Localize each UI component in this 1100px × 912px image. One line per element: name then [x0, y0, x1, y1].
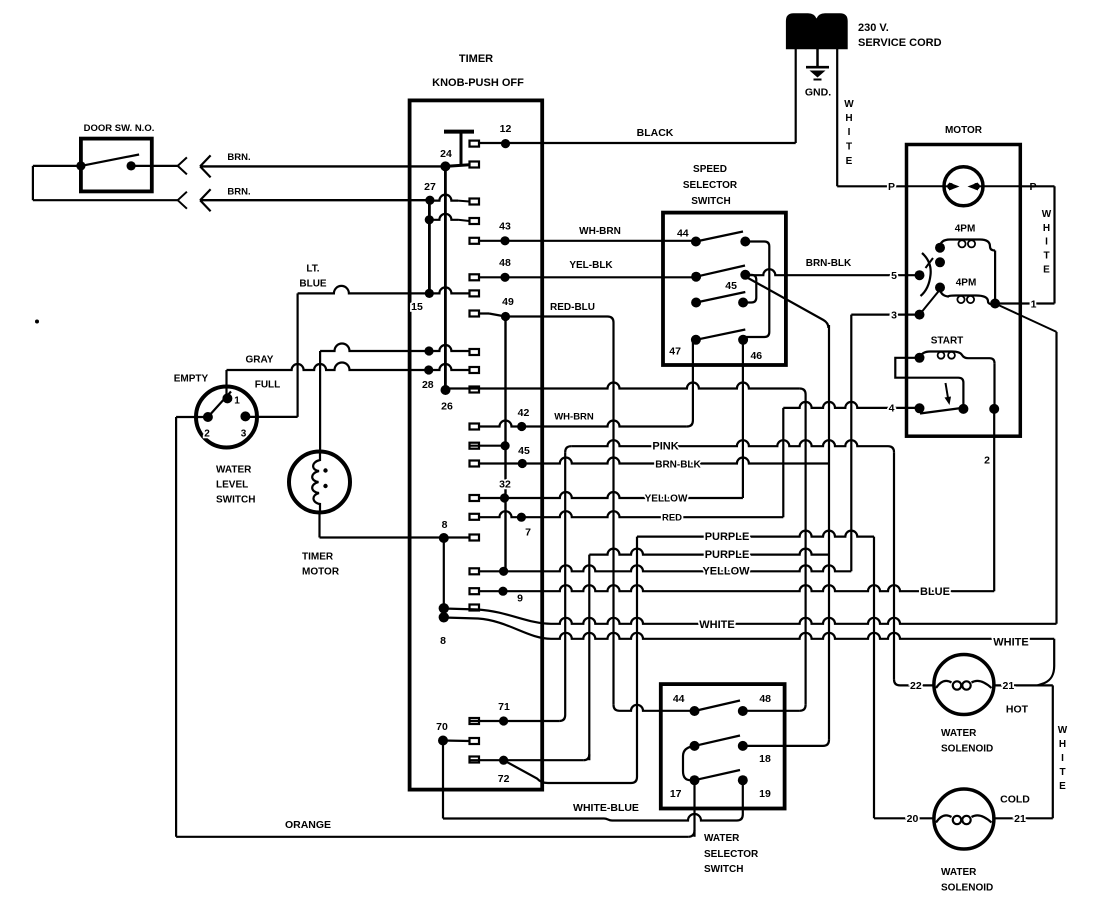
stub row 15 — [470, 290, 480, 296]
wire red riser — [782, 408, 784, 517]
svg-text:SOLENOID: SOLENOID — [941, 744, 993, 755]
svg-text:WHITE: WHITE — [699, 619, 734, 631]
door switch box — [81, 139, 152, 192]
svg-text:TIMER: TIMER — [302, 552, 334, 563]
wire pink drop to 22 — [893, 452, 895, 679]
stub row 571 — [470, 568, 480, 574]
motor 5 selector arc — [921, 253, 931, 296]
wire PURPLE2 (timer 72 to water sel 18 riser) — [589, 549, 829, 555]
svg-text:I: I — [848, 127, 851, 138]
svg-text:H: H — [1059, 739, 1066, 750]
svg-text:EMPTY: EMPTY — [174, 374, 209, 385]
terminal 26 dot — [441, 385, 451, 395]
motor 4PM wire down to 1 — [994, 251, 996, 304]
cold solenoid circle — [934, 789, 994, 849]
wire 71 row — [470, 720, 560, 722]
svg-text:4PM: 4PM — [955, 224, 976, 235]
speed pole2 dot — [691, 272, 701, 282]
svg-text:LT.: LT. — [306, 264, 319, 275]
svg-text:TIMER: TIMER — [459, 53, 493, 65]
svg-text:44: 44 — [677, 228, 689, 240]
speed 45 strap to pole3 — [743, 275, 756, 303]
svg-text:SELECTOR: SELECTOR — [704, 849, 759, 860]
svg-text:W: W — [1058, 725, 1068, 736]
svg-text:W: W — [1042, 209, 1052, 220]
speed 46 contact dot — [738, 335, 748, 345]
motor 4PM upper winding — [935, 243, 945, 253]
wire WHITE row E (to hot solenoid 21) — [444, 618, 551, 639]
stub row 27 — [470, 199, 480, 205]
water sel 18 dot — [738, 741, 748, 751]
wire 18 to riser — [743, 745, 823, 747]
stub row 8 — [470, 535, 480, 541]
stub row 72 — [470, 757, 480, 763]
wire 22 row — [900, 684, 934, 686]
motor START winding — [915, 353, 925, 363]
wire BRN-BLK (speed 45 to motor 5) — [745, 269, 919, 275]
svg-text:SWITCH: SWITCH — [216, 495, 255, 506]
svg-text:2: 2 — [204, 429, 210, 440]
connector chevrons BRN lower — [178, 192, 187, 201]
motor box — [907, 145, 1021, 437]
svg-text:4: 4 — [889, 403, 895, 415]
terminal 49 dot — [501, 312, 510, 321]
speed pole2 blade — [696, 266, 745, 277]
svg-text:45: 45 — [725, 280, 737, 292]
stub row 48 — [470, 274, 480, 280]
wire 72 diagonal — [504, 760, 637, 783]
wire 21 cold row — [994, 817, 1053, 819]
svg-text:WH-BRN: WH-BRN — [554, 412, 594, 423]
svg-text:WATER: WATER — [941, 867, 977, 878]
svg-text:12: 12 — [500, 123, 512, 135]
door switch blade — [81, 155, 139, 166]
wire vertical to water sel 48 — [804, 395, 806, 705]
wire BRN-BLK (timer 45 right) — [470, 458, 830, 464]
svg-text:BRN.: BRN. — [227, 187, 250, 198]
svg-text:W: W — [844, 99, 854, 110]
wire RED-BLU vertical to water sel 44 — [612, 323, 614, 705]
svg-text:START: START — [931, 336, 964, 347]
wire FULL (timer to timer motor) — [320, 344, 469, 351]
wire speed 46 drop — [742, 340, 744, 498]
stub row 26 — [470, 387, 480, 393]
wlsw contact 1 — [222, 393, 232, 403]
svg-text:DOOR SW. N.O.: DOOR SW. N.O. — [84, 123, 155, 134]
vertical 24-26 — [444, 166, 447, 390]
hot solenoid coil — [936, 681, 952, 688]
svg-text:48: 48 — [499, 257, 511, 269]
wlsw blade — [208, 392, 231, 418]
dot below 27 — [425, 215, 434, 224]
timer motor coil — [312, 452, 320, 512]
svg-text:3: 3 — [241, 429, 247, 440]
gray vertical to wlsw 1 — [225, 370, 227, 398]
wire 44 row into box — [620, 705, 695, 711]
motor diagonal to white row D — [995, 304, 1056, 332]
wire 20 row — [874, 817, 934, 819]
svg-text:32: 32 — [499, 479, 511, 491]
wire 18 riser — [828, 325, 830, 740]
stub row 7 — [470, 514, 480, 520]
motor contact dots — [935, 257, 945, 267]
svg-text:28: 28 — [422, 379, 434, 391]
wire speed 47 drop — [692, 340, 694, 421]
svg-text:E: E — [846, 156, 853, 167]
wire BRN upper (door sw to timer 24) — [131, 165, 178, 167]
svg-text:15: 15 — [411, 301, 423, 313]
svg-text:7: 7 — [525, 527, 531, 539]
svg-text:SWITCH: SWITCH — [704, 864, 743, 875]
speed pole3 blade — [696, 292, 745, 303]
motor start winding drop — [993, 363, 995, 409]
white E drop to 21 — [1038, 639, 1055, 686]
water sel 48 dot — [738, 706, 748, 716]
wire BRN lower (to timer 27) — [200, 199, 430, 201]
svg-text:42: 42 — [518, 407, 530, 419]
terminal 32 dot — [500, 493, 509, 502]
svg-text:BRN-BLK: BRN-BLK — [655, 460, 701, 471]
wire 72 row — [470, 759, 584, 761]
yellow3 riser — [850, 315, 852, 572]
water selector switch box — [661, 684, 785, 808]
water sel C connector — [683, 746, 695, 780]
stub row 43 — [470, 238, 480, 244]
purple2 left vertical — [588, 555, 590, 761]
terminal 48 dot — [500, 273, 509, 282]
wire wlsw 2 left — [176, 416, 208, 418]
wire white plug to motor P — [837, 185, 906, 187]
svg-text:WHITE-BLUE: WHITE-BLUE — [573, 802, 639, 814]
wlsw contact 3 — [240, 411, 250, 421]
speed 45 diagonal — [745, 277, 828, 329]
svg-text:22: 22 — [910, 680, 922, 692]
dot row 351 — [424, 346, 433, 355]
stub row 9 — [470, 588, 480, 594]
wire P to 1 white run — [1020, 185, 1054, 187]
water sel 17 dot — [690, 775, 700, 785]
stub row 445 — [470, 443, 480, 449]
water sel A dot — [690, 741, 700, 751]
wire 24 to stub — [445, 165, 469, 167]
wire 220 to stub — [429, 214, 458, 220]
svg-text:72: 72 — [498, 773, 510, 785]
speed 44 blade — [696, 232, 743, 242]
svg-text:26: 26 — [441, 401, 453, 413]
svg-text:27: 27 — [424, 181, 436, 193]
speed 44 dot — [691, 237, 701, 247]
wire 70 to stub — [443, 739, 470, 742]
vertical 8 to white dots — [443, 538, 445, 617]
wire RED (timer 7 to motor 4) — [470, 511, 784, 517]
wire 48 to riser — [743, 710, 800, 712]
svg-text:44: 44 — [673, 693, 685, 705]
wire BLACK (timer 12 to service cord) — [475, 142, 796, 144]
motor start arrow — [946, 383, 949, 398]
water sel 44 blade — [695, 701, 741, 712]
motor 3 link — [920, 290, 941, 315]
svg-text:I: I — [1045, 236, 1048, 247]
terminal 43 dot — [500, 236, 509, 245]
svg-text:3: 3 — [891, 310, 897, 322]
wire WHITE-BLUE (70 to water sel 19) — [443, 814, 743, 821]
svg-text:2: 2 — [984, 455, 990, 467]
dot row 571 — [499, 567, 508, 576]
svg-text:WATER: WATER — [941, 728, 977, 739]
purple1 left vertical — [636, 537, 638, 777]
svg-text:WATER: WATER — [216, 465, 252, 476]
speed pole1 contact dot — [740, 237, 750, 247]
stub row D — [470, 605, 480, 611]
svg-text:PINK: PINK — [652, 441, 678, 453]
terminal 72 dot — [499, 756, 508, 765]
svg-text:RED-BLU: RED-BLU — [550, 302, 595, 313]
svg-text:YELLOW: YELLOW — [702, 566, 750, 578]
svg-text:BLUE: BLUE — [299, 279, 327, 290]
svg-text:46: 46 — [750, 350, 762, 362]
stub row 42 — [470, 424, 480, 430]
full vertical to timer motor — [319, 351, 321, 452]
svg-text:18: 18 — [759, 753, 771, 765]
speed 45 contact dot — [740, 270, 750, 280]
svg-text:GRAY: GRAY — [246, 355, 274, 366]
door switch left loop wire — [33, 165, 81, 167]
wire ORANGE bottom — [176, 836, 688, 838]
terminal 12 stub — [470, 141, 480, 147]
white dots pair — [439, 603, 449, 613]
svg-text:43: 43 — [499, 221, 511, 233]
motor 3 dot — [915, 310, 925, 320]
svg-text:HOT: HOT — [1006, 704, 1029, 716]
wire wlsw3 stub — [245, 416, 297, 418]
svg-text:4PM: 4PM — [956, 278, 977, 289]
wire 27 to stub — [430, 195, 458, 201]
stub row 28 — [470, 367, 480, 373]
stub row 70 — [470, 738, 480, 744]
terminal 15 dot — [425, 289, 434, 298]
stub row 45t — [470, 461, 480, 467]
svg-text:ORANGE: ORANGE — [285, 819, 331, 831]
wire YEL-BLK (timer 48 to speed switch) — [470, 276, 697, 278]
svg-text:SERVICE CORD: SERVICE CORD — [858, 37, 942, 49]
svg-text:PURPLE: PURPLE — [705, 531, 750, 543]
svg-text:MOTOR: MOTOR — [945, 125, 983, 136]
wire 70 drop — [442, 741, 444, 819]
svg-text:MOTOR: MOTOR — [302, 567, 340, 578]
terminal 24 dot — [440, 161, 450, 171]
stub row 220 — [470, 218, 480, 224]
svg-text:SWITCH: SWITCH — [691, 196, 730, 207]
stray dot — [35, 320, 39, 324]
svg-text:49: 49 — [502, 296, 514, 308]
svg-text:SPEED: SPEED — [693, 164, 727, 175]
speed pole1 strap to 46 — [743, 242, 769, 340]
terminal 45 dot — [518, 459, 527, 468]
svg-text:RED: RED — [662, 513, 682, 524]
svg-text:SOLENOID: SOLENOID — [941, 883, 993, 894]
wire RED-BLU (timer 49 right) — [470, 312, 490, 314]
motor protector circle — [944, 167, 983, 206]
svg-text:21: 21 — [1003, 680, 1015, 692]
svg-text:T: T — [1059, 767, 1065, 778]
wire 17 drop to orange — [693, 780, 695, 837]
terminal 9 dot — [498, 587, 507, 596]
svg-text:H: H — [1043, 223, 1050, 234]
stub row 71 — [470, 718, 480, 724]
svg-text:24: 24 — [440, 148, 452, 160]
wire timer 26 to water sel 48 — [446, 383, 800, 389]
wire BLUE (timer 9 to motor 2) — [470, 585, 995, 591]
motor start tab — [895, 358, 963, 409]
svg-text:T: T — [1043, 250, 1049, 261]
motor start contact dots — [958, 404, 968, 414]
svg-text:9: 9 — [517, 593, 523, 605]
svg-text:1: 1 — [234, 396, 240, 407]
water sel 44 dot — [690, 706, 700, 716]
motor 5 dot — [915, 270, 925, 280]
svg-text:COLD: COLD — [1000, 794, 1030, 806]
terminal 71 dot — [499, 716, 508, 725]
wire WH-BRN (timer 42 to speed 47) — [470, 421, 687, 427]
ground pin wire — [816, 49, 819, 66]
svg-text:8: 8 — [440, 635, 446, 647]
svg-text:21: 21 — [1014, 813, 1026, 825]
svg-text:P: P — [888, 181, 895, 193]
svg-text:19: 19 — [759, 788, 771, 800]
speed selector switch box — [663, 213, 786, 365]
svg-text:I: I — [1061, 753, 1064, 764]
terminal 8 dot — [439, 533, 449, 543]
cold solenoid coil — [936, 815, 952, 822]
svg-text:BLUE: BLUE — [920, 586, 950, 598]
svg-text:WATER: WATER — [704, 833, 740, 844]
wire ORANGE vertical — [175, 417, 177, 837]
svg-text:PURPLE: PURPLE — [705, 549, 750, 561]
stub row 49 — [470, 311, 480, 317]
svg-text:8: 8 — [442, 519, 448, 531]
water sel 17 blade — [695, 770, 741, 780]
wire YELLOW (timer 32 to speed 46) — [470, 492, 743, 498]
hot solenoid circle — [934, 655, 994, 715]
speed 47 blade — [696, 330, 745, 340]
wire motor 3 row — [851, 314, 919, 316]
svg-text:45: 45 — [518, 445, 530, 457]
terminal 70 dot — [438, 736, 448, 746]
stub row 351 — [470, 349, 480, 355]
wire PURPLE1 (timer 72 diag to cold solenoid) — [637, 531, 874, 537]
svg-text:71: 71 — [498, 701, 510, 713]
svg-text:E: E — [1043, 264, 1050, 275]
stub row 32 — [470, 495, 480, 501]
svg-text:70: 70 — [436, 721, 448, 733]
wire YELLOW3 (timer to motor 3) — [470, 565, 852, 571]
terminal 12 dot — [501, 139, 510, 148]
wire motor 2 vertical — [993, 409, 995, 591]
230V service cord plug — [786, 13, 848, 49]
terminal 28 dot — [424, 365, 433, 374]
connector chevrons BRN upper — [178, 157, 187, 166]
svg-text:KNOB-PUSH OFF: KNOB-PUSH OFF — [432, 77, 524, 89]
motor 4PM lower winding — [940, 288, 995, 305]
purple1 right vertical to 20 — [873, 537, 875, 819]
terminal 27 dot — [425, 196, 434, 205]
water sel A blade — [695, 736, 741, 746]
svg-text:BRN.: BRN. — [227, 152, 250, 163]
svg-text:WH-BRN: WH-BRN — [579, 226, 621, 237]
svg-text:T: T — [846, 141, 852, 152]
door switch contacts — [76, 161, 85, 170]
svg-text:47: 47 — [669, 346, 681, 358]
svg-text:H: H — [845, 113, 852, 124]
svg-text:GND.: GND. — [805, 87, 831, 99]
svg-text:E: E — [1059, 781, 1066, 792]
motor 4 dot — [915, 403, 925, 413]
motor start blade — [920, 408, 962, 414]
black pin wire — [795, 49, 797, 143]
svg-text:17: 17 — [670, 788, 682, 800]
white pin wire — [836, 49, 838, 186]
dot row 445 — [501, 441, 510, 450]
wire stub to 445 dot — [470, 445, 506, 447]
timer box — [410, 100, 543, 789]
terminal 42 dot — [517, 422, 526, 431]
wire LT BLUE (wlsw 3 to timer 15) — [298, 286, 470, 293]
stub row 24 — [470, 162, 480, 168]
motor protector contacts — [949, 183, 960, 191]
wire WH-BRN (timer 43 to speed 44) — [470, 240, 696, 242]
timer motor circle — [289, 452, 350, 513]
wire P row inside — [907, 185, 945, 187]
svg-text:SELECTOR: SELECTOR — [683, 180, 738, 191]
svg-text:5: 5 — [891, 270, 897, 282]
wire 21 hot to cold — [1052, 685, 1054, 818]
svg-text:1: 1 — [1031, 299, 1037, 311]
vertical 49-571 — [504, 317, 506, 572]
lt blue vertical — [297, 293, 299, 417]
speed 47 dot — [691, 335, 701, 345]
svg-text:LEVEL: LEVEL — [216, 480, 248, 491]
wlsw contact 2 — [203, 412, 213, 422]
svg-text:20: 20 — [907, 813, 919, 825]
ground symbol — [806, 66, 829, 69]
terminal 7 dot — [517, 513, 526, 522]
svg-text:BLACK: BLACK — [637, 127, 674, 139]
speed pole3 dot — [691, 298, 701, 308]
knob push bar — [444, 130, 474, 134]
motor 1 junction dot — [990, 299, 1000, 309]
wire 71 riser (PINK) — [564, 452, 566, 715]
water level switch circle — [196, 387, 257, 448]
wire timer motor to terminal 8 — [318, 513, 320, 538]
svg-text:48: 48 — [759, 693, 771, 705]
wire to motor 4 — [783, 402, 919, 408]
wire WHITE row D (to motor 1 junction) — [444, 609, 551, 624]
vertical 27 chain — [428, 200, 431, 293]
wire PINK row — [571, 440, 888, 446]
wire GRAY (wlsw 1 to timer 28) — [227, 363, 470, 370]
svg-text:FULL: FULL — [255, 380, 281, 391]
svg-text:230 V.: 230 V. — [858, 22, 889, 34]
svg-text:BRN-BLK: BRN-BLK — [806, 258, 852, 269]
svg-text:WHITE: WHITE — [993, 637, 1028, 649]
svg-text:YEL-BLK: YEL-BLK — [569, 260, 613, 271]
water sel 19 dot — [738, 775, 748, 785]
speed pole3 contact dot — [738, 298, 748, 308]
wire 19 drop — [742, 780, 744, 814]
wire 21 hot row — [994, 684, 1053, 686]
svg-text:YELLOW: YELLOW — [645, 494, 688, 505]
